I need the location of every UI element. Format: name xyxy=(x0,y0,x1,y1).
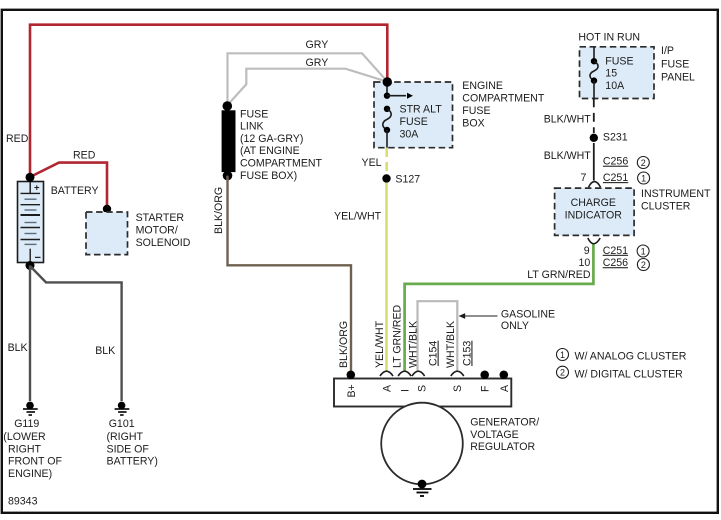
svg-text:(12 GA-GRY): (12 GA-GRY) xyxy=(240,133,303,145)
svg-text:WHT/BLK: WHT/BLK xyxy=(445,321,457,368)
connector arc terminal A xyxy=(380,371,393,376)
svg-text:S127: S127 xyxy=(395,173,420,185)
engine compartment fuse box (dashed) xyxy=(374,82,453,148)
svg-text:10: 10 xyxy=(579,257,591,269)
svg-text:A: A xyxy=(499,384,511,392)
svg-text:FUSE: FUSE xyxy=(400,116,428,128)
battery xyxy=(18,173,44,270)
terminal dot F xyxy=(480,371,489,380)
svg-text:FUSE: FUSE xyxy=(661,58,689,70)
svg-text:BLK: BLK xyxy=(95,345,115,357)
svg-text:I: I xyxy=(400,389,412,392)
svg-text:GRY: GRY xyxy=(306,39,329,51)
svg-text:VOLTAGE: VOLTAGE xyxy=(470,429,518,441)
terminal dot A (rear) xyxy=(500,371,509,380)
STR ALT fuse symbol xyxy=(383,82,413,148)
node S231 xyxy=(590,134,598,142)
svg-text:INDICATOR: INDICATOR xyxy=(565,210,623,222)
svg-text:WHT/BLK: WHT/BLK xyxy=(408,321,420,368)
connector arc terminal S (C154) xyxy=(412,371,425,376)
svg-text:C153: C153 xyxy=(461,341,473,366)
svg-text:RIGHT: RIGHT xyxy=(8,443,41,455)
cluster connector arc (top) xyxy=(589,182,601,188)
svg-text:F: F xyxy=(480,385,492,392)
svg-text:W/ DIGITAL CLUSTER: W/ DIGITAL CLUSTER xyxy=(575,368,684,380)
svg-text:GRY: GRY xyxy=(306,57,329,69)
svg-text:FUSE BOX): FUSE BOX) xyxy=(240,170,297,182)
connector arc terminal I xyxy=(398,371,411,376)
svg-text:C251: C251 xyxy=(603,172,628,184)
starter motor/solenoid xyxy=(103,205,111,213)
junction node (red/gray) xyxy=(383,77,392,86)
svg-text:REGULATOR: REGULATOR xyxy=(470,441,535,453)
generator ground xyxy=(413,480,432,496)
svg-text:30A: 30A xyxy=(400,129,420,141)
svg-text:COMPARTMENT: COMPARTMENT xyxy=(240,158,323,170)
svg-text:G119: G119 xyxy=(14,418,39,430)
svg-text:FUSE: FUSE xyxy=(240,108,268,120)
svg-text:1: 1 xyxy=(560,350,565,360)
svg-text:W/ ANALOG CLUSTER: W/ ANALOG CLUSTER xyxy=(575,350,687,362)
I/P fuse panel box xyxy=(580,47,655,99)
generator/voltage regulator block xyxy=(334,379,511,485)
legend analog cluster xyxy=(557,349,569,361)
terminal dot B+ xyxy=(347,371,356,380)
svg-text:C154: C154 xyxy=(428,341,440,366)
svg-text:BLK: BLK xyxy=(8,342,28,354)
svg-text:1: 1 xyxy=(641,173,646,183)
svg-text:ONLY: ONLY xyxy=(501,320,529,332)
wire YEL dashed (fuse box to S127) xyxy=(385,148,388,172)
svg-text:2: 2 xyxy=(641,158,646,168)
svg-text:15: 15 xyxy=(605,68,617,80)
svg-text:9: 9 xyxy=(584,245,590,257)
svg-text:2: 2 xyxy=(641,260,646,270)
svg-text:10A: 10A xyxy=(605,80,625,92)
svg-text:1: 1 xyxy=(641,246,646,256)
legend digital cluster xyxy=(557,366,569,378)
svg-text:G101: G101 xyxy=(109,418,135,430)
svg-text:7: 7 xyxy=(581,172,587,184)
svg-text:B+: B+ xyxy=(346,384,358,397)
fuse link F1 xyxy=(222,101,236,180)
wire WHT/BLK loop S to S (gasoline only) xyxy=(418,301,458,370)
svg-text:HOT IN RUN: HOT IN RUN xyxy=(578,32,640,44)
wire RED battery to engine fuse box junction xyxy=(30,25,387,177)
svg-text:89343: 89343 xyxy=(8,495,38,507)
svg-text:SOLENOID: SOLENOID xyxy=(136,237,191,249)
svg-text:I/P: I/P xyxy=(661,45,674,57)
node S127 xyxy=(382,174,390,182)
wire BLK battery to G119 xyxy=(29,266,31,402)
svg-text:(LOWER: (LOWER xyxy=(3,431,46,443)
svg-text:ENGINE: ENGINE xyxy=(462,80,503,92)
svg-text:ENGINE): ENGINE) xyxy=(8,468,52,480)
svg-text:YEL/WHT: YEL/WHT xyxy=(374,320,386,368)
svg-text:LT GRN/RED: LT GRN/RED xyxy=(391,304,403,368)
svg-text:−: − xyxy=(35,252,41,264)
svg-text:BOX: BOX xyxy=(462,117,484,129)
wire BLK/WHT dashed (I/P to S231) xyxy=(593,99,595,134)
svg-text:GASOLINE: GASOLINE xyxy=(501,309,555,321)
svg-text:YEL/WHT: YEL/WHT xyxy=(334,211,382,223)
svg-text:FUSE: FUSE xyxy=(605,55,633,67)
svg-text:SIDE OF: SIDE OF xyxy=(107,443,150,455)
svg-text:BATTERY: BATTERY xyxy=(51,185,99,197)
svg-text:STR ALT: STR ALT xyxy=(400,104,443,116)
ground G119 xyxy=(23,402,38,415)
svg-text:A: A xyxy=(382,384,394,392)
svg-text:S231: S231 xyxy=(603,132,628,144)
connector arc terminal S (C153) xyxy=(451,371,464,376)
svg-text:+: + xyxy=(34,183,40,194)
wire RED battery to starter solenoid xyxy=(30,163,107,209)
svg-text:CHARGE: CHARGE xyxy=(571,197,616,209)
svg-text:FUSE: FUSE xyxy=(462,105,490,117)
svg-text:LINK: LINK xyxy=(240,121,264,133)
svg-text:S: S xyxy=(417,385,429,392)
wire GRY upper (fuse link to junction) xyxy=(228,53,388,106)
svg-text:BLK/WHT: BLK/WHT xyxy=(544,113,592,125)
wire YEL/WHT S127 to generator A xyxy=(385,183,388,371)
svg-text:PANEL: PANEL xyxy=(661,71,695,83)
svg-text:INSTRUMENT: INSTRUMENT xyxy=(641,188,711,200)
wire BLK battery to G101 xyxy=(30,266,122,401)
svg-text:GENERATOR/: GENERATOR/ xyxy=(470,416,539,428)
wire BLK/WHT (S231 to cluster) xyxy=(593,143,595,181)
svg-text:C251: C251 xyxy=(603,245,628,257)
cluster connector arc (bottom) xyxy=(588,238,600,244)
svg-text:BLK/ORG: BLK/ORG xyxy=(213,187,225,234)
svg-text:(RIGHT: (RIGHT xyxy=(107,431,144,443)
svg-text:BATTERY): BATTERY) xyxy=(107,456,158,468)
svg-text:BLK/WHT: BLK/WHT xyxy=(544,150,592,162)
svg-text:FRONT OF: FRONT OF xyxy=(8,456,62,468)
svg-text:2: 2 xyxy=(560,368,565,378)
svg-text:BLK/ORG: BLK/ORG xyxy=(338,321,350,368)
fuse 15 symbol xyxy=(590,47,598,99)
wire GRY lower (fuse link to junction) xyxy=(228,69,387,105)
instrument cluster box (dashed) xyxy=(555,188,635,235)
svg-text:YEL: YEL xyxy=(362,157,382,169)
svg-text:MOTOR/: MOTOR/ xyxy=(136,224,178,236)
gasoline only callout arrow xyxy=(459,313,498,319)
svg-text:C256: C256 xyxy=(603,257,628,269)
wire LT GRN/RED charge indicator to generator I xyxy=(405,244,594,371)
svg-text:CLUSTER: CLUSTER xyxy=(641,200,691,212)
svg-text:RED: RED xyxy=(73,150,96,162)
svg-text:S: S xyxy=(452,385,464,392)
svg-text:C256: C256 xyxy=(603,156,628,168)
svg-text:STARTER: STARTER xyxy=(136,212,185,224)
svg-text:(AT ENGINE: (AT ENGINE xyxy=(240,145,300,157)
svg-text:COMPARTMENT: COMPARTMENT xyxy=(462,93,545,105)
wire BLK/ORG fuse link to B+ xyxy=(228,176,352,375)
ground G101 xyxy=(115,402,130,415)
svg-text:RED: RED xyxy=(6,133,29,145)
svg-text:LT GRN/RED: LT GRN/RED xyxy=(527,269,591,281)
